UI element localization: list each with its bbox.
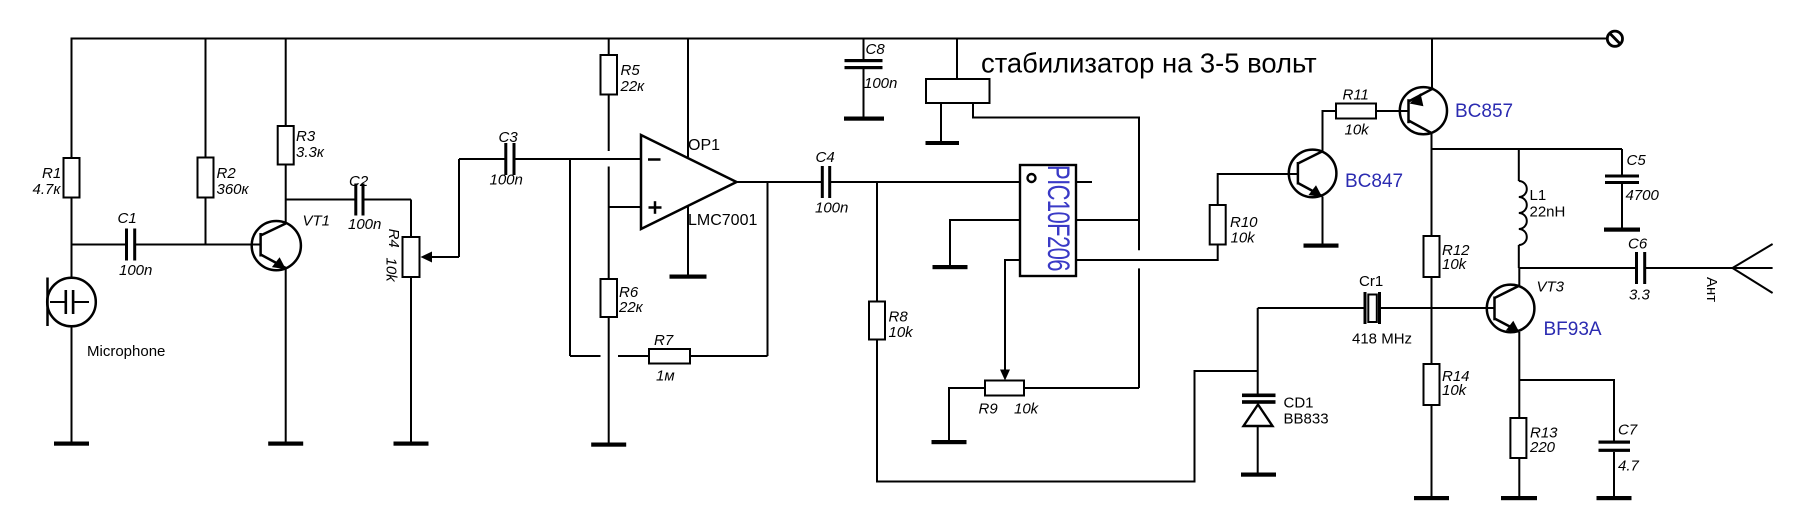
- wire R3 bottom to VT1 collector: [285, 165, 287, 224]
- svg-text:R11: R11: [1343, 87, 1369, 104]
- capacitor C5: [1605, 149, 1660, 228]
- svg-text:VT3: VT3: [1537, 279, 1565, 296]
- wire R9 right up to stab line: [1024, 387, 1139, 389]
- svg-text:C6: C6: [1628, 236, 1648, 253]
- wire R5 bottom (gap at crossing): [608, 95, 610, 152]
- resistor R6: [601, 279, 644, 317]
- wire R10 top to BC847 base: [1218, 174, 1298, 205]
- ground CD1: [1241, 473, 1276, 477]
- capacitor C6: [1628, 236, 1651, 304]
- svg-text:10k: 10k: [383, 258, 400, 284]
- wire PIC bottom-left pin to R9 wiper: [1000, 260, 1020, 381]
- svg-text:100n: 100n: [119, 262, 152, 279]
- wire stabilizer output to PIC: [973, 103, 1139, 250]
- svg-text:3.3: 3.3: [1629, 287, 1651, 304]
- IC U2 PIC10F206: [1020, 165, 1077, 276]
- wire R5 top: [608, 39, 610, 56]
- wire stabilizer top pin: [956, 39, 958, 80]
- svg-text:Cr1: Cr1: [1359, 273, 1383, 290]
- svg-text:3.3к: 3.3к: [296, 144, 325, 161]
- wire feedback to R7: [690, 355, 768, 357]
- wire emitter node to C7: [1519, 380, 1614, 441]
- wire R2 top: [205, 39, 207, 158]
- ground BC847: [1304, 244, 1339, 248]
- resistor R14: [1424, 364, 1470, 405]
- resistor R1: [33, 158, 80, 198]
- svg-text:10k: 10k: [889, 324, 915, 341]
- wire R8 bottom loop to varicap node: [877, 340, 1258, 482]
- ground op-amp: [670, 275, 707, 279]
- wire C6 to antenna: [1646, 267, 1773, 269]
- svg-text:OP1: OP1: [688, 137, 720, 154]
- svg-text:4.7: 4.7: [1618, 458, 1640, 475]
- svg-text:R10: R10: [1230, 214, 1258, 231]
- svg-text:R8: R8: [889, 309, 909, 326]
- svg-text:R1: R1: [42, 165, 61, 182]
- wire op-amp output: [737, 181, 822, 183]
- svg-text:L1: L1: [1530, 187, 1547, 204]
- svg-text:220: 220: [1529, 439, 1556, 456]
- svg-text:100n: 100n: [348, 216, 381, 233]
- svg-text:4.7к: 4.7к: [33, 181, 62, 198]
- varicap CD1 BB833: [1242, 308, 1329, 473]
- wire R5-R6 junction to plus input: [609, 167, 641, 280]
- svg-text:C7: C7: [1618, 422, 1638, 439]
- ceramic resonator Cr1: [1258, 273, 1495, 348]
- capacitor C7: [1599, 422, 1640, 497]
- resistor R11: [1336, 87, 1376, 139]
- capacitor C1: [72, 210, 261, 279]
- svg-text:418 MHz: 418 MHz: [1352, 331, 1412, 348]
- transistor VT2 BC847: [1289, 150, 1403, 198]
- svg-text:Ант: Ант: [1703, 277, 1720, 302]
- capacitor C8: [845, 39, 898, 117]
- ground R6: [591, 443, 626, 447]
- wire VT1 emitter to ground: [285, 268, 287, 442]
- ground R13: [1501, 496, 1537, 500]
- wire VT3 collector up: [1518, 268, 1520, 286]
- wire PIC left middle pin to ground: [950, 220, 1020, 265]
- svg-text:PIC10F206: PIC10F206: [1041, 165, 1077, 271]
- wire R11 to BC857 base: [1376, 110, 1409, 112]
- connector X1 supply terminal: [1607, 31, 1622, 46]
- capacitor C3: [459, 129, 523, 189]
- resistor R10: [1210, 205, 1258, 247]
- wire PIC top-right stub: [1076, 181, 1092, 183]
- svg-text:CD1: CD1: [1284, 395, 1314, 412]
- op-amp U1 LMC7001: [641, 135, 757, 229]
- wire R1 bottom to node: [71, 198, 73, 278]
- svg-text:10k: 10k: [1442, 382, 1468, 399]
- microphone BM1: [47, 278, 165, 361]
- transistor VT1: [252, 213, 330, 271]
- capacitor C4: [815, 149, 848, 217]
- svg-text:1м: 1м: [656, 368, 675, 385]
- wire R2 bottom to base node: [205, 198, 207, 245]
- wire R3 top: [285, 39, 287, 127]
- resistor R7: [649, 332, 690, 385]
- svg-text:BC857: BC857: [1455, 101, 1513, 122]
- resistor R3: [278, 126, 325, 165]
- svg-text:22к: 22к: [618, 299, 644, 316]
- resistor R8: [869, 302, 914, 342]
- svg-text:C4: C4: [816, 149, 835, 166]
- svg-text:4700: 4700: [1626, 187, 1660, 204]
- wire R13 bottom to ground: [1518, 458, 1520, 496]
- wire R4 bottom to ground: [410, 277, 412, 442]
- wire PIC middle-right pin: [1076, 219, 1139, 221]
- wire feedback branch down: [767, 182, 769, 356]
- antenna WA1: [1703, 244, 1773, 302]
- resistor R2: [198, 158, 250, 199]
- wire C3 to op-amp inverting input: [516, 158, 642, 160]
- ground PIC pin: [933, 265, 968, 269]
- svg-text:10k: 10k: [1442, 256, 1468, 273]
- wire C4 to PIC pin: [831, 181, 1020, 183]
- wire PIC bottom-right pin to R10: [1076, 245, 1218, 261]
- svg-text:22к: 22к: [620, 78, 646, 95]
- ground C8: [844, 117, 884, 121]
- svg-text:R5: R5: [621, 62, 641, 79]
- svg-text:100n: 100n: [490, 172, 523, 189]
- svg-text:BB833: BB833: [1284, 411, 1329, 428]
- wire feedback up to inverting input: [569, 159, 571, 356]
- svg-text:10k: 10k: [1345, 122, 1371, 139]
- svg-text:BF93A: BF93A: [1544, 319, 1602, 340]
- wire microphone to ground: [71, 326, 73, 441]
- ground R14: [1414, 496, 1449, 500]
- svg-text:360к: 360к: [217, 181, 250, 198]
- wire BC847 emitter to ground: [1322, 197, 1324, 244]
- ground VT1 emitter: [268, 442, 303, 446]
- svg-text:22nH: 22nH: [1530, 204, 1566, 221]
- wire stab line lower segment to R9 (gap at crossing): [1138, 268, 1140, 388]
- svg-text:C1: C1: [118, 210, 137, 227]
- wire R7 left (gap at R6 crossing): [570, 355, 649, 357]
- svg-text:100n: 100n: [864, 75, 897, 92]
- ground stabilizer: [926, 141, 960, 145]
- svg-text:C2: C2: [349, 173, 369, 190]
- ground microphone: [54, 442, 89, 446]
- wire C2 to R4 top: [410, 200, 412, 238]
- wire R8 branch down: [876, 182, 878, 302]
- svg-text:C8: C8: [866, 41, 886, 58]
- wire op-amp power pin from rail: [687, 39, 689, 158]
- wire collector node to C5: [1432, 148, 1623, 150]
- ground R4: [394, 442, 429, 446]
- resistor R5: [601, 55, 646, 95]
- svg-text:VT1: VT1: [303, 213, 331, 230]
- wire R6 bottom to ground: [608, 317, 610, 443]
- wire R12 bottom to base line: [1431, 277, 1433, 364]
- svg-text:R3: R3: [296, 128, 316, 145]
- svg-text:LMC7001: LMC7001: [688, 212, 757, 229]
- inductor L1: [1519, 149, 1566, 268]
- wire stabilizer left pin to ground: [940, 103, 942, 141]
- svg-text:R9: R9: [979, 401, 999, 418]
- svg-text:100n: 100n: [815, 200, 848, 217]
- wire VT3 emitter down: [1518, 332, 1520, 418]
- svg-text:C5: C5: [1627, 152, 1647, 169]
- svg-text:10k: 10k: [1231, 230, 1257, 247]
- wire BC857 collector down: [1431, 134, 1433, 237]
- svg-text:стабилизатор на 3-5 вольт: стабилизатор на 3-5 вольт: [981, 48, 1317, 79]
- resistor R12: [1424, 236, 1471, 277]
- wire top supply rail: [71, 38, 1607, 40]
- wire op-amp ground pin: [687, 206, 689, 275]
- stabilizer box: [926, 79, 990, 103]
- ground C7: [1597, 496, 1632, 500]
- wire BC847 collector to R11: [1323, 111, 1337, 152]
- potentiometer R9: [979, 381, 1040, 418]
- svg-text:R7: R7: [654, 332, 674, 349]
- svg-text:R4: R4: [385, 229, 402, 248]
- resistor R13: [1510, 418, 1558, 458]
- wire R1 top: [71, 39, 73, 159]
- wire BC857 emitter to rail: [1431, 39, 1433, 89]
- svg-text:BC847: BC847: [1345, 171, 1403, 192]
- potentiometer R4: [383, 159, 460, 283]
- wire R9 left to ground: [949, 388, 985, 440]
- svg-text:R2: R2: [217, 165, 237, 182]
- ground R9: [932, 440, 967, 444]
- wire collector node to C6: [1519, 267, 1636, 269]
- capacitor C2: [286, 173, 411, 233]
- transistor VT3 BF93A: [1487, 279, 1602, 341]
- wire R14 bottom to ground: [1431, 405, 1433, 496]
- transistor VT4 BC857: [1400, 87, 1513, 134]
- svg-text:10k: 10k: [1014, 401, 1040, 418]
- ground C5: [1604, 228, 1640, 232]
- svg-text:Microphone: Microphone: [87, 343, 165, 360]
- svg-text:C3: C3: [499, 129, 519, 146]
